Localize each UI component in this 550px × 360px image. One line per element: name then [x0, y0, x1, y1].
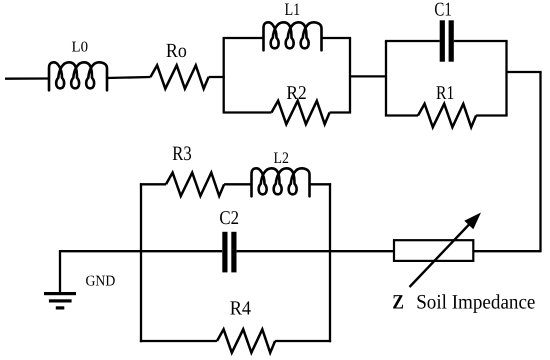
wire network to soil impedance — [330, 250, 394, 252]
wire box1 left edge — [223, 38, 225, 113]
wire network left vertical — [140, 183, 142, 342]
svg-text:R2: R2 — [286, 83, 306, 104]
wire box1 bottom left — [223, 111, 272, 113]
wire top branch left — [140, 183, 166, 185]
wire box1 right edge — [349, 38, 351, 113]
svg-text:C2: C2 — [219, 208, 239, 229]
wire ground to network — [59, 250, 141, 252]
wire network right vertical — [329, 183, 331, 342]
svg-text:R3: R3 — [172, 143, 191, 165]
resistor Ro — [151, 65, 209, 88]
wire box2 right edge — [505, 41, 507, 116]
wire box1 to box2 — [350, 75, 386, 77]
capacitor C2 — [225, 232, 234, 273]
wire Ro to box node — [209, 76, 225, 78]
svg-text:R4: R4 — [230, 297, 251, 319]
inductor L1 — [264, 22, 322, 50]
resistor R3 — [166, 173, 224, 196]
resistor R2 — [272, 101, 330, 124]
wire box2 bottom left — [385, 114, 418, 116]
resistor R4 — [217, 329, 275, 352]
ground stem wire — [59, 251, 61, 293]
wire box1 top left — [223, 37, 264, 39]
wire middle branch left — [141, 250, 222, 252]
svg-text:L2: L2 — [274, 150, 289, 167]
svg-text:GND: GND — [86, 274, 116, 290]
wire box1 bottom right — [330, 111, 352, 113]
wire box1 top right — [322, 37, 352, 39]
wire L0 to Ro — [107, 77, 151, 78]
wire box2 bottom right — [476, 114, 508, 116]
ground symbol — [44, 292, 76, 310]
wire middle branch right — [237, 250, 330, 252]
capacitor C1 — [442, 20, 451, 61]
wire box2 output — [507, 71, 542, 73]
resistor R1 — [418, 104, 476, 127]
svg-text:Z: Z — [392, 291, 404, 313]
svg-text:L1: L1 — [285, 0, 301, 19]
svg-text:R1: R1 — [436, 83, 454, 104]
wire R3 to L2 — [224, 183, 251, 185]
wire bottom branch right — [275, 340, 331, 342]
wire L2 to corner — [310, 183, 332, 185]
svg-text:L0: L0 — [72, 40, 89, 56]
wire box2 top left — [385, 40, 440, 42]
wire right vertical — [539, 72, 541, 252]
inductor L2 — [252, 168, 310, 196]
wire box2 left edge — [385, 41, 387, 116]
wire input terminal — [5, 77, 49, 79]
inductor L0 — [49, 62, 107, 90]
arrow through soil impedance — [410, 224, 471, 288]
wire soil impedance to right vertical — [473, 250, 540, 252]
wire box2 top right — [454, 40, 508, 42]
svg-text:C1: C1 — [434, 0, 451, 21]
wire bottom branch left — [140, 340, 217, 342]
svg-text:Soil Impedance: Soil Impedance — [416, 291, 535, 313]
soil impedance box Z — [394, 240, 473, 261]
svg-text:Ro: Ro — [166, 40, 187, 62]
